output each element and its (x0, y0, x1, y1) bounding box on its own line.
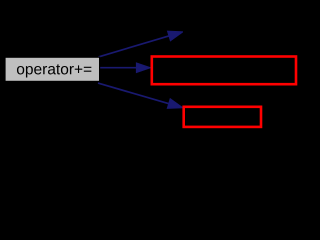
arrowhead top edge (168, 31, 183, 41)
node middle (red border, truncated) (152, 57, 296, 85)
wire: edge operator+= to middle node (99, 67, 138, 69)
node operator+= (current, grey) (5, 57, 100, 81)
arrowhead bottom edge (167, 99, 183, 109)
node top (black border, invisible on black bg) (184, 18, 296, 45)
wire: edge operator+= to top node (99, 35, 172, 57)
wire: edge operator+= to bottom node (98, 83, 171, 104)
label: operator+= text (vector outlines, Liberation Sans 15.5px) (17, 64, 91, 77)
node bottom (red border, truncated) (184, 107, 261, 127)
arrowhead middle edge (136, 63, 150, 73)
